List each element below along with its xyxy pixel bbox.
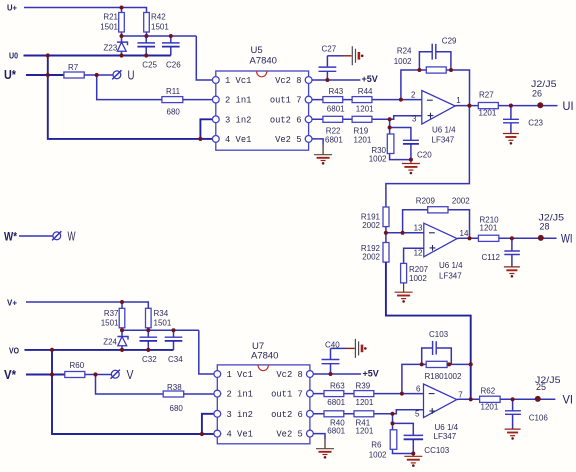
- wire U0: [24, 55, 171, 57]
- svg-text:1002: 1002: [394, 57, 412, 66]
- junction (400.9,99.6): [399, 98, 403, 102]
- ground (C112): [504, 266, 520, 268]
- svg-text:1002: 1002: [409, 274, 427, 283]
- svg-text:2 in1: 2 in1: [225, 96, 251, 106]
- ground (U7 pin5): [324, 439, 326, 449]
- junction (121.5,36): [120, 34, 124, 38]
- pin 1 U7: [214, 371, 221, 378]
- svg-text:C27: C27: [322, 45, 337, 54]
- junction (510.9,105.6): [509, 104, 513, 108]
- svg-text:6801: 6801: [325, 135, 343, 144]
- svg-text:+5V: +5V: [362, 74, 378, 84]
- junction (122,349.9): [120, 348, 124, 352]
- svg-text:4 Ve1: 4 Ve1: [225, 135, 251, 145]
- resistor R7: [64, 72, 84, 78]
- junction (413.3,453.5): [411, 452, 415, 456]
- svg-text:R207: R207: [409, 265, 429, 274]
- IC U5 A7840: [216, 71, 309, 150]
- junction (511.9,238.3): [510, 236, 514, 240]
- svg-text:U6 1/4: U6 1/4: [435, 423, 459, 432]
- pin 7: [305, 96, 312, 103]
- svg-text:V+: V+: [7, 299, 17, 308]
- svg-text:R62: R62: [481, 386, 496, 395]
- svg-text:680: 680: [167, 107, 181, 116]
- svg-text:C106: C106: [529, 414, 549, 423]
- junction (122,302): [120, 300, 124, 304]
- svg-text:C34: C34: [168, 355, 183, 364]
- junction (469.4,105.6): [467, 104, 471, 108]
- junction (148.3,349.9): [146, 348, 150, 352]
- ground (R207): [395, 283, 413, 292]
- capacitor C29: [419, 52, 451, 70]
- pin 4: [212, 136, 219, 143]
- svg-text:1501: 1501: [101, 318, 119, 327]
- junction (52,374.5): [50, 372, 54, 376]
- svg-text:Vc2 8: Vc2 8: [275, 76, 301, 86]
- junction (121.5,7.5): [120, 6, 124, 10]
- wire VO: [25, 349, 174, 351]
- svg-text:13: 13: [414, 224, 423, 233]
- svg-text:12: 12: [414, 249, 423, 258]
- capacitor C106: [512, 399, 514, 429]
- svg-text:R42: R42: [151, 13, 166, 22]
- svg-text:1002: 1002: [369, 154, 387, 163]
- wire V* to R38: [96, 375, 164, 395]
- svg-text:C103: C103: [429, 330, 449, 339]
- svg-text:LF347: LF347: [439, 272, 462, 281]
- resistor R19: [352, 116, 372, 122]
- junction (419.4,70): [417, 68, 421, 72]
- svg-text:1201: 1201: [354, 135, 372, 144]
- wire Vc1 feed: [196, 36, 212, 80]
- junction (95.5,374.5): [93, 372, 97, 376]
- svg-text:R19: R19: [354, 126, 369, 135]
- svg-text:U+: U+: [7, 4, 17, 13]
- junction (449.1,364.4): [447, 362, 451, 366]
- resistor R41: [354, 411, 374, 417]
- resistor R30: [390, 128, 411, 160]
- svg-text:R209: R209: [416, 197, 436, 206]
- svg-text:1501: 1501: [154, 318, 172, 327]
- junction (148.3,330.3): [146, 328, 150, 332]
- wire pin5 U7 to ground: [313, 434, 325, 439]
- wire pin7 row: [312, 99, 422, 101]
- junction (146.2,55.5): [144, 53, 148, 57]
- ground (C40, rotated): [331, 347, 346, 349]
- svg-text:1002: 1002: [369, 450, 387, 459]
- junction (410.9,159.6): [409, 158, 413, 162]
- test point W: [53, 232, 61, 240]
- resistor R44: [352, 97, 372, 103]
- wire V+ rail: [26, 302, 148, 308]
- svg-text:28: 28: [540, 222, 550, 232]
- svg-text:A7840: A7840: [251, 350, 278, 361]
- svg-text:1201: 1201: [356, 105, 374, 114]
- svg-text:out2 6: out2 6: [270, 115, 302, 125]
- svg-text:UI: UI: [563, 99, 574, 113]
- svg-text:out1 7: out1 7: [271, 390, 303, 400]
- wire pin12 to R207: [404, 248, 424, 263]
- junction (200.4,138.9): [198, 137, 202, 141]
- svg-text:R21: R21: [103, 13, 118, 22]
- svg-text:3 in2: 3 in2: [227, 410, 253, 420]
- capacitor C112: [511, 238, 513, 266]
- svg-text:1 Vc1: 1 Vc1: [225, 76, 251, 86]
- pin 3 U7: [214, 410, 221, 417]
- svg-text:1201: 1201: [480, 223, 498, 232]
- resistor R42: [146, 32, 148, 36]
- wire R60 to test point: [85, 374, 111, 376]
- junction (96.7,75): [95, 73, 99, 77]
- resistor R39: [354, 391, 374, 397]
- svg-text:R24: R24: [397, 46, 412, 55]
- wire pin6 row: [312, 118, 390, 120]
- wire to pin3: [200, 119, 212, 139]
- svg-text:+5V: +5V: [363, 369, 379, 379]
- svg-text:LF347: LF347: [432, 135, 455, 144]
- wire Vc1 feed V: [199, 330, 214, 374]
- op-amp U6B: [424, 384, 457, 418]
- junction (47.8,75): [46, 73, 50, 77]
- pin 8: [305, 77, 312, 84]
- wire pin5 U5 to ground: [312, 139, 323, 145]
- svg-text:Ve2 5: Ve2 5: [275, 135, 301, 145]
- svg-text:2 in1: 2 in1: [227, 390, 253, 400]
- svg-text:U: U: [128, 68, 135, 83]
- wire to pin3 V: [202, 414, 214, 434]
- wire pin6 row (V): [313, 413, 392, 415]
- svg-text:R1801002: R1801002: [425, 372, 462, 381]
- test point V: [111, 370, 119, 378]
- pin 6 U7: [307, 410, 314, 417]
- wire U+ rail: [24, 8, 147, 13]
- svg-text:6: 6: [416, 384, 421, 393]
- capacitor C26: [170, 36, 172, 56]
- junction (401.9,393.6): [400, 392, 404, 396]
- resistor R60: [65, 372, 85, 378]
- feedback rail R24: [401, 70, 470, 106]
- junction (512.6,399.3): [510, 397, 514, 401]
- zener Z24: [121, 330, 123, 350]
- wire R38 to pin2: [184, 393, 214, 395]
- svg-text:6801: 6801: [327, 398, 345, 407]
- wire filtered rail: [122, 35, 197, 37]
- resistor R207: [401, 263, 407, 283]
- capacitor C40: [330, 348, 332, 374]
- pin 6: [305, 116, 312, 123]
- svg-text:1201: 1201: [356, 398, 374, 407]
- junction (402.6,232.8): [401, 231, 405, 235]
- junction (173.5,330.3): [172, 328, 176, 332]
- svg-text:2: 2: [411, 91, 416, 100]
- svg-text:A7840: A7840: [250, 56, 277, 67]
- svg-text:C26: C26: [166, 60, 181, 69]
- pin 7 U7: [307, 390, 314, 397]
- svg-text:Z23: Z23: [104, 43, 118, 52]
- svg-text:3: 3: [412, 115, 417, 124]
- capacitor C25: [145, 36, 147, 56]
- svg-text:C112: C112: [481, 253, 500, 262]
- wire pin7 row (V): [313, 393, 423, 395]
- svg-text:Vc2 8: Vc2 8: [276, 370, 302, 380]
- capacitor C32: [147, 330, 149, 350]
- resistor R192: [385, 233, 387, 243]
- ground (C106): [505, 428, 521, 430]
- svg-text:3 in2: 3 in2: [225, 115, 251, 125]
- junction (330.5,374): [329, 372, 333, 376]
- svg-text:C23: C23: [528, 118, 543, 127]
- pin 5: [305, 136, 312, 143]
- wire R7 to test point: [84, 74, 112, 76]
- resistor R37: [121, 302, 123, 330]
- svg-text:6801: 6801: [327, 426, 345, 435]
- svg-text:1: 1: [456, 96, 461, 105]
- svg-text:1 Vc1: 1 Vc1: [227, 370, 253, 380]
- resistor R210: [478, 235, 498, 241]
- wire UI to R191: [386, 106, 470, 207]
- svg-text:R38: R38: [167, 383, 182, 392]
- svg-text:4 Ve1: 4 Ve1: [227, 430, 253, 440]
- svg-text:26: 26: [532, 89, 542, 99]
- op-amp U6A: [422, 91, 455, 125]
- resistor R180: [426, 361, 447, 367]
- svg-text:R44: R44: [358, 87, 373, 96]
- wire R210 to WI: [499, 237, 557, 239]
- zener Z23: [121, 36, 123, 56]
- svg-text:5: 5: [415, 410, 420, 419]
- svg-text:R39: R39: [356, 381, 371, 390]
- wire pin8 to +5V (V): [313, 373, 361, 375]
- svg-text:7: 7: [458, 390, 463, 399]
- pin 2 U7: [214, 390, 221, 397]
- junction (421.7,364.4): [420, 362, 424, 366]
- wire to pin4 V: [202, 433, 214, 435]
- svg-text:C20: C20: [417, 151, 432, 160]
- junction (470.7,364.4): [469, 362, 473, 366]
- wire R192 to VI node: [386, 262, 471, 399]
- capacitor C34: [173, 330, 175, 350]
- svg-text:2002: 2002: [362, 253, 380, 262]
- resistor R38: [163, 391, 184, 397]
- svg-text:R6: R6: [371, 441, 382, 450]
- svg-text:LF347: LF347: [434, 432, 457, 441]
- svg-text:VI: VI: [563, 393, 574, 407]
- test point U: [113, 71, 121, 79]
- svg-text:V*: V*: [4, 368, 16, 382]
- pin 2: [212, 96, 219, 103]
- resistor R43: [323, 97, 343, 103]
- svg-text:R60: R60: [70, 361, 85, 370]
- svg-text:R63: R63: [330, 381, 345, 390]
- junction (327.4,80): [325, 78, 329, 82]
- junction (201.9,434): [200, 432, 204, 436]
- svg-text:C29: C29: [442, 37, 457, 46]
- svg-text:V: V: [127, 367, 134, 382]
- svg-text:R37: R37: [104, 309, 119, 318]
- svg-text:680: 680: [170, 404, 184, 413]
- svg-text:VO: VO: [9, 347, 19, 356]
- resistor R40: [324, 411, 344, 417]
- feedback rail R180: [402, 364, 471, 393]
- svg-text:CC103: CC103: [424, 446, 449, 455]
- junction (170.8,36): [169, 34, 173, 38]
- svg-text:R34: R34: [154, 309, 169, 318]
- wire V* down to pins 3,4: [52, 350, 202, 434]
- svg-text:Ve2 5: Ve2 5: [276, 430, 302, 440]
- pin 4 U7: [214, 430, 221, 437]
- resistor R191: [383, 207, 389, 227]
- junction R30/C20: [389, 119, 391, 127]
- svg-text:1201: 1201: [479, 108, 497, 117]
- junction (385.9,232.8): [384, 231, 388, 235]
- IC U7 A7840: [217, 365, 310, 444]
- pin 8 U7: [307, 371, 314, 378]
- ground (C23): [503, 133, 519, 135]
- svg-text:1501: 1501: [100, 23, 118, 32]
- capacitor C23: [510, 106, 512, 134]
- wire U*: [26, 74, 64, 76]
- resistor R62: [480, 396, 501, 402]
- junction (392.5,413.8): [391, 412, 395, 416]
- wire jog to + input (V): [393, 410, 424, 414]
- feedback rail R209: [403, 210, 470, 239]
- capacitor CC103: [393, 423, 414, 453]
- junction (122,330.3): [120, 328, 124, 332]
- svg-text:U0: U0: [9, 51, 18, 60]
- svg-text:2002: 2002: [452, 197, 470, 206]
- wire filtered rail V: [122, 329, 199, 331]
- svg-text:U6 1/4: U6 1/4: [439, 261, 463, 270]
- junction R6/CC103: [392, 414, 394, 424]
- wire U* down to pins 3,4: [48, 56, 201, 139]
- capacitor C27: [326, 56, 328, 80]
- svg-text:1201: 1201: [356, 426, 374, 435]
- junction (469.5,238.3): [467, 236, 471, 240]
- junction (47.8,55.5): [46, 53, 50, 57]
- op-amp U6D: [424, 223, 457, 257]
- pin 1: [212, 77, 219, 84]
- svg-text:out2 6: out2 6: [271, 410, 303, 420]
- wire output to R62: [457, 398, 480, 400]
- capacitor C20: [390, 128, 411, 160]
- junction (470.7,399.3): [469, 397, 473, 401]
- wire output to R210: [457, 237, 478, 239]
- wire jog to + input: [390, 116, 422, 120]
- svg-text:C32: C32: [142, 355, 157, 364]
- wire to pin4: [200, 138, 212, 140]
- junction (146.4,36): [144, 34, 148, 38]
- junction (52,349.9): [50, 348, 54, 352]
- svg-text:2002: 2002: [362, 221, 380, 230]
- resistor R63: [324, 391, 344, 397]
- svg-text:U*: U*: [4, 68, 16, 82]
- svg-text:out1 7: out1 7: [270, 96, 302, 106]
- svg-text:R27: R27: [479, 91, 494, 100]
- junction (389.6,119.3): [388, 117, 392, 121]
- wire output to R27: [455, 105, 478, 107]
- pin 3: [212, 116, 219, 123]
- wire U* to R11: [97, 75, 162, 100]
- junction (392.5,423.4): [391, 421, 395, 425]
- svg-text:1501: 1501: [151, 23, 169, 32]
- ground (U5 pin5): [322, 145, 324, 155]
- resistor R27: [478, 103, 498, 109]
- svg-text:R7: R7: [68, 63, 79, 72]
- wire V*: [26, 374, 65, 376]
- svg-text:U6 1/4: U6 1/4: [432, 126, 456, 135]
- junction (121.5,55.5): [119, 53, 123, 57]
- svg-text:W: W: [68, 229, 76, 244]
- svg-text:WI: WI: [561, 232, 573, 246]
- wire pin8 to +5V: [312, 79, 361, 81]
- wire summing node: [386, 232, 424, 234]
- wire R27 to UI: [498, 105, 557, 107]
- svg-text:C25: C25: [142, 60, 157, 69]
- capacitor C103: [422, 348, 452, 364]
- svg-text:Z24: Z24: [103, 337, 117, 346]
- svg-text:W*: W*: [4, 232, 17, 244]
- junction (451,70): [449, 68, 453, 72]
- wire R62 to VI: [500, 398, 555, 400]
- svg-text:R43: R43: [329, 87, 344, 96]
- resistor R11: [162, 97, 183, 103]
- ground (C27, rotated): [327, 55, 342, 57]
- wire R11 to pin2: [183, 99, 213, 101]
- svg-text:14: 14: [460, 229, 469, 238]
- svg-text:6801: 6801: [327, 105, 345, 114]
- resistor R209: [428, 207, 448, 213]
- svg-text:1201: 1201: [481, 403, 499, 412]
- junction (389.6,127.5): [388, 126, 392, 130]
- svg-text:25: 25: [536, 382, 546, 392]
- pin 5 U7: [307, 430, 314, 437]
- resistor R24: [426, 67, 446, 73]
- svg-text:J2/J5: J2/J5: [531, 79, 557, 89]
- resistor R34: [146, 308, 152, 328]
- ground (R30/C20): [402, 160, 420, 164]
- svg-text:R11: R11: [166, 87, 181, 96]
- ground (R6/CC103): [404, 454, 422, 457]
- resistor R22: [323, 116, 343, 122]
- wire W*: [19, 235, 53, 237]
- resistor R21: [121, 8, 123, 37]
- resistor R6: [393, 423, 414, 453]
- svg-text:R22: R22: [326, 126, 341, 135]
